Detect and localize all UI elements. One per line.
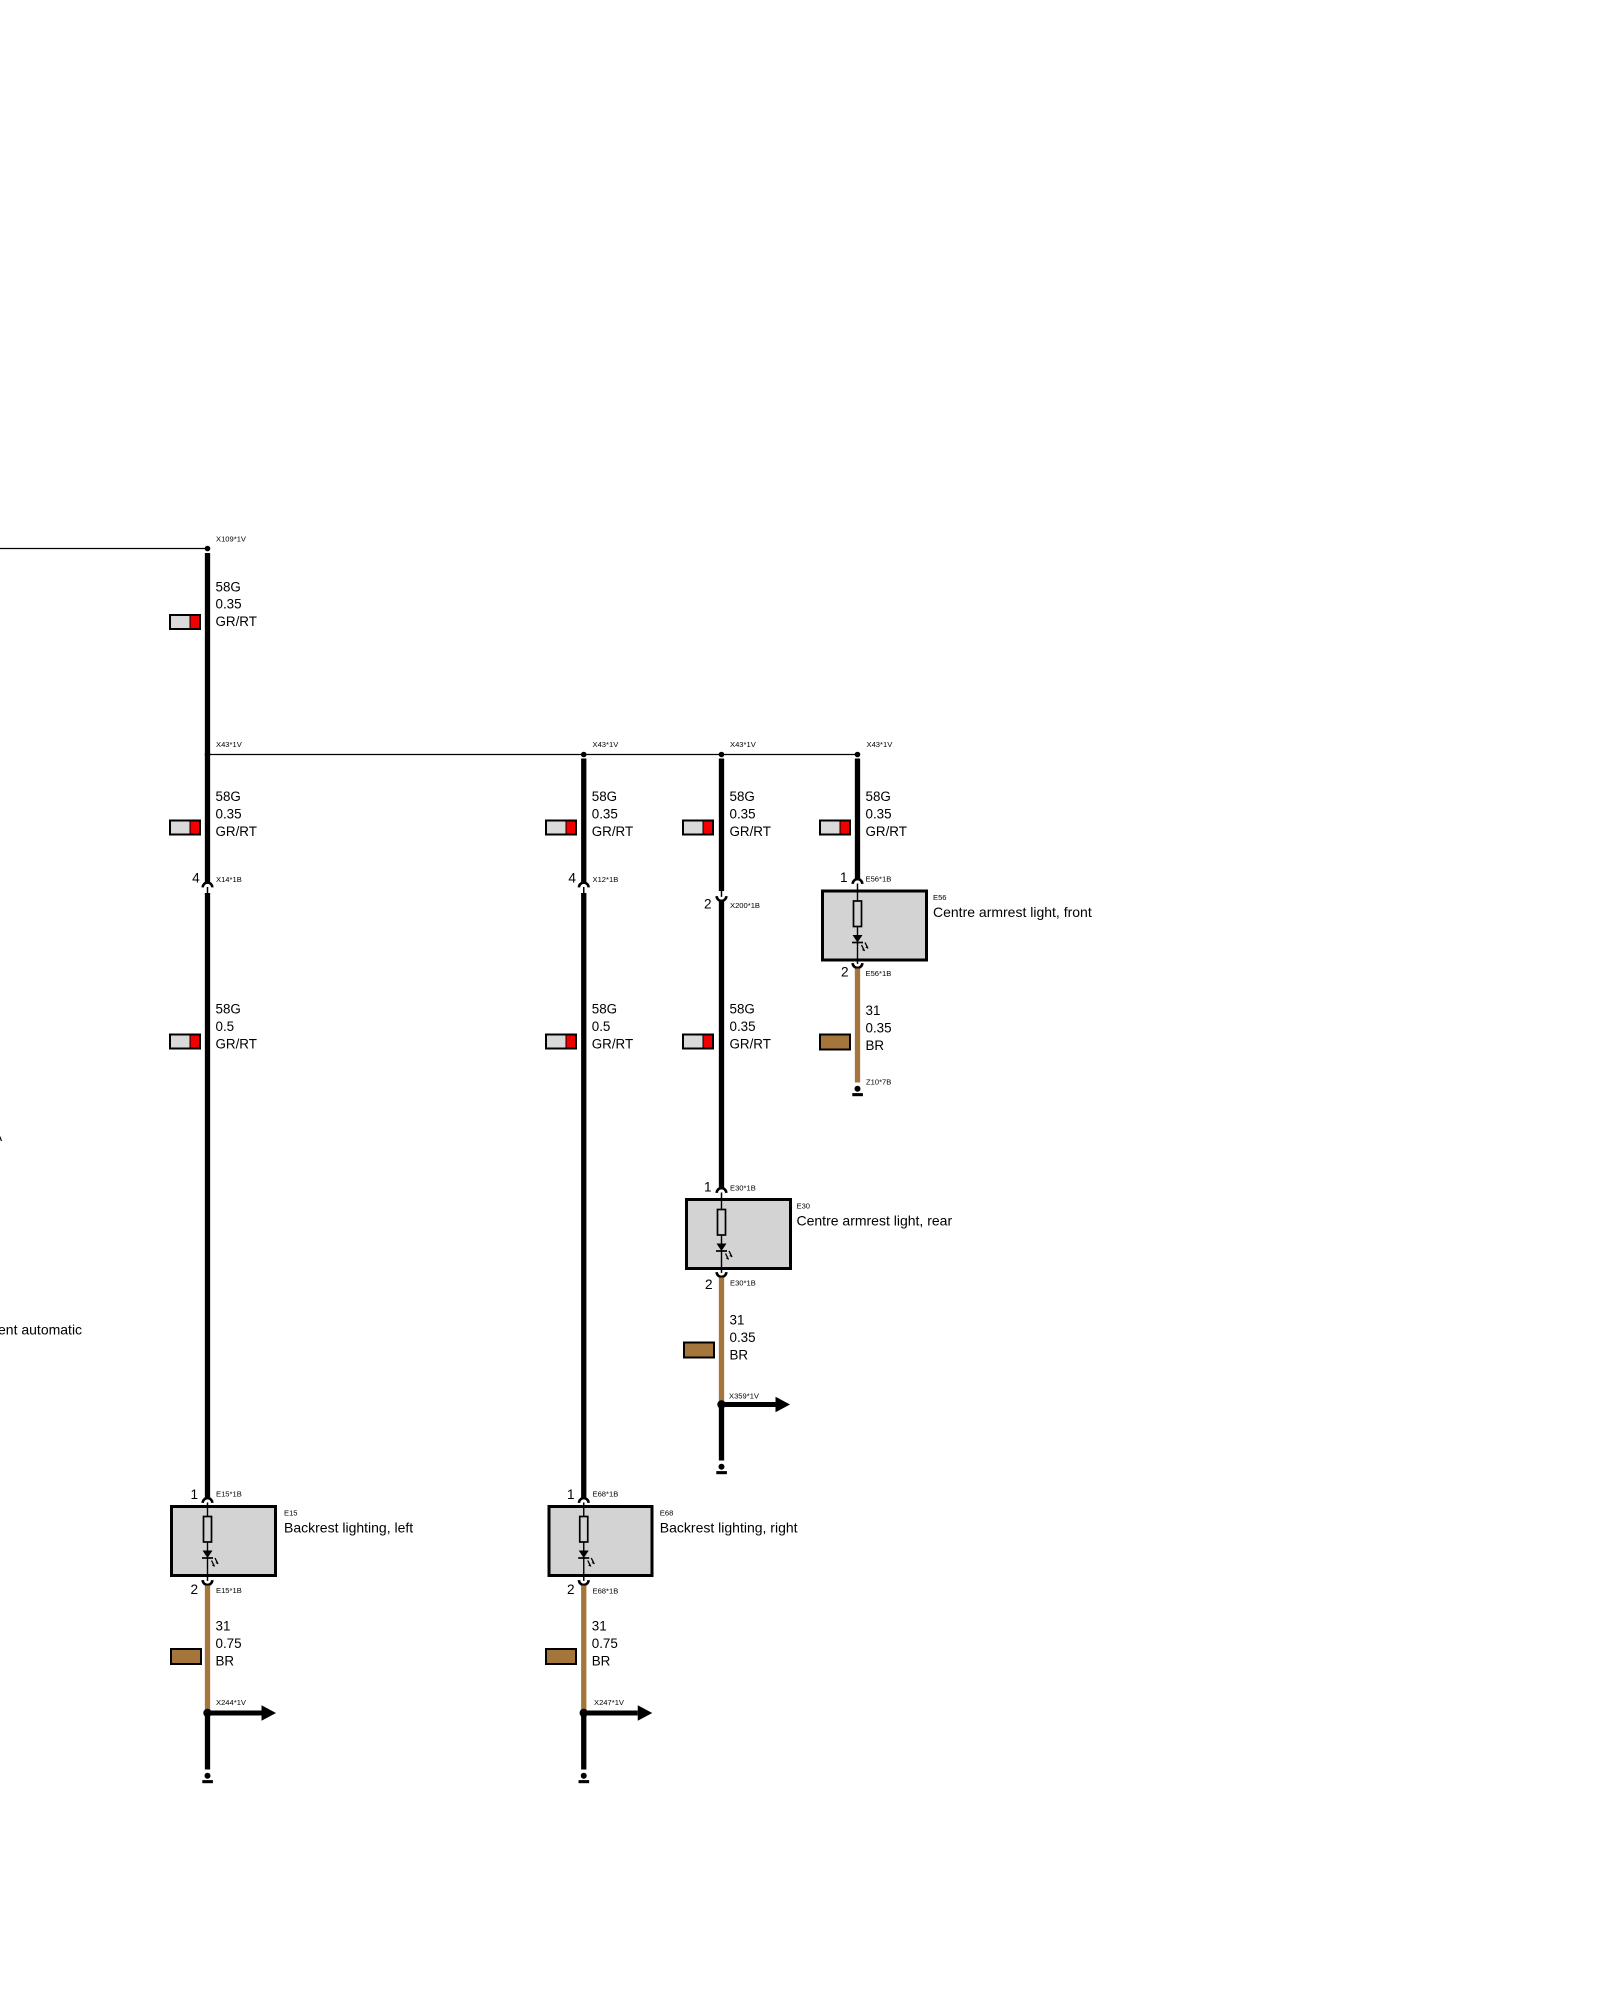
- svg-text:Centre armrest light, rear: Centre armrest light, rear: [797, 1212, 953, 1228]
- svg-text:Backrest lighting, left: Backrest lighting, left: [284, 1519, 413, 1535]
- svg-text:1: 1: [840, 870, 848, 885]
- svg-text:BR: BR: [592, 1653, 611, 1668]
- svg-text:0.35: 0.35: [730, 806, 756, 821]
- svg-text:GR/RT: GR/RT: [592, 1036, 633, 1051]
- svg-text:2: 2: [567, 1582, 575, 1597]
- svg-text:GR/RT: GR/RT: [216, 824, 257, 839]
- svg-text:0.5: 0.5: [592, 1019, 611, 1034]
- svg-text:BR: BR: [866, 1038, 885, 1053]
- svg-text:E30*1B: E30*1B: [730, 1184, 756, 1193]
- svg-text:2: 2: [190, 1582, 198, 1597]
- svg-text:0.35: 0.35: [730, 1019, 756, 1034]
- svg-text:X43*1V: X43*1V: [593, 740, 620, 749]
- svg-text:4: 4: [568, 871, 576, 886]
- svg-text:0.35: 0.35: [592, 806, 618, 821]
- svg-text:0.35: 0.35: [730, 1330, 756, 1345]
- svg-text:2: 2: [704, 897, 712, 912]
- svg-text:GR/RT: GR/RT: [866, 824, 907, 839]
- svg-text:31: 31: [216, 1619, 231, 1634]
- svg-text:0.75: 0.75: [216, 1636, 242, 1651]
- svg-text:Centre armrest light, front: Centre armrest light, front: [933, 904, 1092, 920]
- svg-text:X244*1V: X244*1V: [216, 1698, 247, 1707]
- svg-text:E68*1B: E68*1B: [593, 1490, 619, 1499]
- svg-text:E30*1B: E30*1B: [730, 1279, 756, 1288]
- svg-text:X247*1V: X247*1V: [594, 1698, 625, 1707]
- svg-text:2: 2: [705, 1277, 713, 1292]
- svg-text:2: 2: [841, 965, 849, 980]
- svg-text:0.35: 0.35: [216, 806, 242, 821]
- svg-text:E15*1B: E15*1B: [216, 1586, 242, 1595]
- svg-text:E68: E68: [660, 1509, 674, 1518]
- svg-text:0.75: 0.75: [592, 1636, 618, 1651]
- svg-text:58G: 58G: [592, 1002, 617, 1017]
- svg-text:58G: 58G: [216, 579, 241, 594]
- svg-text:GR/RT: GR/RT: [730, 824, 771, 839]
- svg-text:0.5: 0.5: [216, 1019, 235, 1034]
- svg-text:E15: E15: [284, 1509, 298, 1518]
- svg-text:1: 1: [190, 1487, 198, 1502]
- svg-text:Backrest lighting, right: Backrest lighting, right: [660, 1519, 798, 1535]
- svg-text:31: 31: [866, 1003, 881, 1018]
- svg-text:GR/RT: GR/RT: [216, 614, 257, 629]
- svg-text:0.35: 0.35: [866, 1020, 892, 1035]
- svg-text:X200*1B: X200*1B: [730, 901, 760, 910]
- svg-text:BR: BR: [216, 1653, 235, 1668]
- svg-text:E68*1B: E68*1B: [593, 1587, 619, 1596]
- svg-text:X12*1B: X12*1B: [593, 875, 619, 884]
- svg-text:BR: BR: [730, 1347, 749, 1362]
- svg-text:X359*1V: X359*1V: [729, 1392, 760, 1401]
- svg-text:0.35: 0.35: [866, 806, 892, 821]
- svg-text:58G: 58G: [866, 789, 891, 804]
- svg-text:E30: E30: [797, 1202, 811, 1211]
- svg-text:GR/RT: GR/RT: [730, 1036, 771, 1051]
- svg-text:0.35: 0.35: [216, 597, 242, 612]
- svg-text:58G: 58G: [730, 1002, 755, 1017]
- svg-text:58G: 58G: [216, 1002, 241, 1017]
- svg-text:GR/RT: GR/RT: [592, 824, 633, 839]
- svg-text:4: 4: [192, 871, 200, 886]
- svg-text:58G: 58G: [730, 789, 755, 804]
- svg-text:X43*1V: X43*1V: [730, 740, 757, 749]
- svg-text:X43*1V: X43*1V: [216, 740, 243, 749]
- svg-text:58G: 58G: [216, 789, 241, 804]
- svg-text:58G: 58G: [592, 789, 617, 804]
- svg-text:31: 31: [592, 1619, 607, 1634]
- svg-text:GR/RT: GR/RT: [216, 1036, 257, 1051]
- svg-text:1: 1: [704, 1180, 712, 1195]
- svg-text:A: A: [0, 1129, 3, 1144]
- svg-text:E56: E56: [933, 893, 947, 902]
- svg-text:E56*1B: E56*1B: [866, 969, 892, 978]
- svg-text:Z10*7B: Z10*7B: [866, 1078, 891, 1087]
- svg-text:1: 1: [567, 1487, 575, 1502]
- svg-text:E56*1B: E56*1B: [866, 875, 892, 884]
- svg-text:X43*1V: X43*1V: [867, 740, 894, 749]
- svg-text:31: 31: [730, 1313, 745, 1328]
- svg-text:X109*1V: X109*1V: [216, 535, 247, 544]
- svg-text:X14*1B: X14*1B: [216, 875, 242, 884]
- svg-text:E15*1B: E15*1B: [216, 1490, 242, 1499]
- svg-text:ent automatic: ent automatic: [0, 1322, 82, 1338]
